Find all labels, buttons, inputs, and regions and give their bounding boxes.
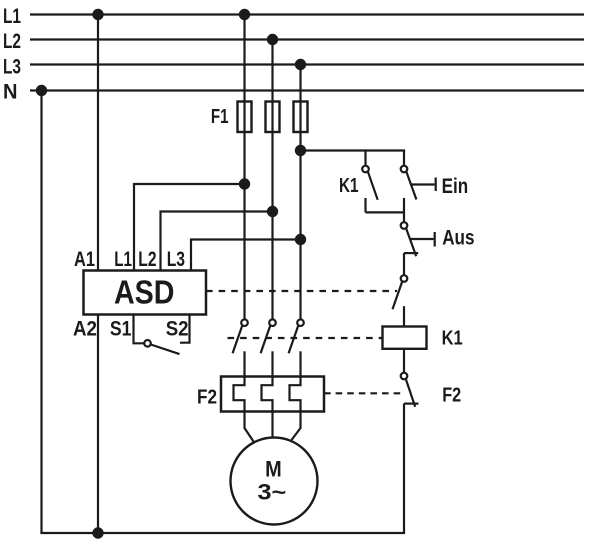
junction phase 2 to ASD L2 bbox=[267, 206, 278, 217]
coil K1 bbox=[383, 327, 427, 349]
svg-text:F1: F1 bbox=[211, 106, 229, 128]
contact Ein blade bbox=[406, 172, 416, 200]
wire S2 drop bbox=[180, 315, 190, 343]
wire F2 contact down bbox=[403, 404, 405, 533]
svg-text:L2: L2 bbox=[138, 248, 156, 271]
contact F2 seat bar bbox=[404, 403, 419, 405]
wire motor lead 1 bbox=[245, 412, 254, 442]
svg-text:S1: S1 bbox=[110, 318, 132, 341]
contact ASD-driven pivot bbox=[401, 275, 408, 282]
dashed link F2 relay to contact bbox=[324, 392, 403, 394]
contact K1 main 2 pivot bbox=[269, 319, 276, 326]
wire L2 rail bbox=[30, 38, 584, 40]
contact Aus seat bar bbox=[404, 252, 418, 254]
wire ASD L2 branch bbox=[161, 212, 273, 271]
wire phase 2 drop bbox=[271, 40, 273, 320]
contact Aus blade bbox=[406, 229, 416, 257]
dashed link ASD to contact bbox=[206, 290, 397, 292]
motor M1 circle bbox=[231, 438, 318, 525]
wire L3 rail bbox=[30, 63, 584, 65]
pushbutton Ein actuator bbox=[410, 183, 435, 185]
junction on L1 at A1 drop bbox=[92, 9, 103, 20]
svg-text:L1: L1 bbox=[3, 5, 21, 28]
wire main 3 lower bbox=[299, 351, 301, 376]
wire Ein branch lower bbox=[403, 198, 405, 222]
svg-text:F2: F2 bbox=[197, 387, 217, 409]
wire phase 3 drop bbox=[299, 65, 301, 320]
svg-text:K1: K1 bbox=[339, 175, 359, 197]
contact Ein pivot bbox=[401, 166, 408, 173]
wire ASD contact to coil bbox=[403, 306, 405, 326]
contact K1 main 1 blade bbox=[233, 326, 243, 354]
svg-text:L2: L2 bbox=[3, 30, 21, 53]
wire A2 drop bbox=[97, 315, 99, 534]
overload element 1 bbox=[234, 377, 245, 412]
contact S1-S2 pivot bbox=[144, 340, 151, 347]
wire K1 aux branch upper bbox=[364, 151, 366, 166]
fuse F1 pole 1 bbox=[238, 102, 252, 133]
fuse F1 pole 3 bbox=[294, 102, 308, 133]
junction phase 3 control branch bbox=[295, 145, 306, 156]
contact K1 main 3 blade bbox=[289, 326, 299, 354]
wire ASD L1 branch bbox=[134, 184, 245, 271]
contact K1 main 3 pivot bbox=[297, 319, 304, 326]
svg-text:Aus: Aus bbox=[442, 227, 474, 250]
wire main 1 lower bbox=[243, 351, 245, 376]
svg-text:N: N bbox=[3, 81, 18, 104]
svg-text:K1: K1 bbox=[442, 328, 463, 350]
wire bottom rail bbox=[40, 532, 405, 534]
contact F2 blade bbox=[406, 379, 415, 407]
overload element 2 bbox=[262, 377, 273, 412]
pushbutton Ein button bar bbox=[435, 178, 437, 192]
svg-text:S2: S2 bbox=[166, 318, 189, 341]
contact S1-S2 blade bbox=[151, 345, 180, 355]
wire phase 1 drop bbox=[243, 15, 245, 320]
svg-text:3~: 3~ bbox=[258, 480, 287, 505]
wire coil to F2 contact bbox=[403, 349, 405, 373]
wire control branch top bbox=[301, 149, 406, 151]
junction on L3 at phase 3 bbox=[295, 59, 306, 70]
svg-text:ASD: ASD bbox=[114, 274, 175, 311]
wire parallel join bbox=[366, 211, 405, 213]
contact K1 aux blade bbox=[368, 172, 378, 200]
svg-text:A2: A2 bbox=[73, 318, 97, 341]
svg-text:F2: F2 bbox=[442, 385, 461, 407]
contact ASD-driven blade bbox=[393, 282, 403, 310]
wire Ein branch upper bbox=[403, 151, 405, 166]
dashed link K1 coil to main contacts bbox=[228, 337, 383, 339]
wire N drop bbox=[40, 91, 42, 534]
svg-text:L3: L3 bbox=[167, 248, 185, 271]
contact K1 aux pivot bbox=[362, 166, 369, 173]
svg-text:A1: A1 bbox=[74, 248, 95, 271]
junction on L1 at phase 1 bbox=[239, 9, 250, 20]
svg-text:L3: L3 bbox=[3, 56, 21, 79]
wire main 2 lower bbox=[271, 351, 273, 376]
ASD unit box U1 bbox=[84, 271, 207, 315]
junction phase 1 to ASD L1 bbox=[239, 178, 250, 189]
overload element 3 bbox=[290, 377, 301, 412]
pushbutton Aus button bar bbox=[434, 232, 436, 247]
junction phase 3 to ASD L3 bbox=[295, 234, 306, 245]
junction bottom rail at A2 bbox=[92, 527, 103, 538]
wire K1 aux branch lower bbox=[364, 198, 366, 212]
svg-text:M: M bbox=[265, 457, 282, 482]
contact F2 pivot bbox=[401, 373, 408, 380]
junction on L2 at phase 2 bbox=[267, 34, 278, 45]
wire S1 drop bbox=[134, 315, 145, 344]
contact K1 main 1 pivot bbox=[241, 319, 248, 326]
wire motor lead 2 bbox=[271, 412, 273, 438]
wire L1 rail bbox=[30, 13, 584, 15]
wire ASD L3 branch bbox=[191, 240, 301, 271]
junction on N bbox=[36, 85, 47, 96]
fuse F1 pole 2 bbox=[266, 102, 280, 133]
wire Aus to ASD contact bbox=[403, 253, 405, 275]
contact Aus pivot bbox=[401, 222, 408, 229]
svg-text:Ein: Ein bbox=[442, 175, 469, 198]
wire A1 drop bbox=[97, 15, 99, 271]
svg-text:L1: L1 bbox=[114, 248, 132, 271]
pushbutton Aus actuator bbox=[410, 238, 434, 240]
wire N rail bbox=[30, 89, 584, 91]
contact K1 main 2 blade bbox=[261, 326, 271, 354]
wire motor lead 3 bbox=[292, 412, 301, 441]
overload relay F2 box bbox=[221, 377, 324, 412]
